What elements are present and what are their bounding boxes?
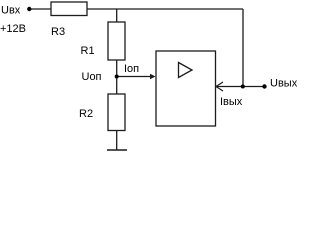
svg-text:R2: R2 — [79, 108, 93, 120]
svg-text:R3: R3 — [51, 26, 65, 38]
svg-text:Uвых: Uвых — [270, 78, 298, 90]
svg-text:Uвх: Uвх — [1, 4, 21, 16]
svg-text:Uоп: Uоп — [82, 71, 102, 83]
svg-text:Iоп: Iоп — [124, 63, 139, 75]
svg-text:R1: R1 — [81, 45, 95, 57]
svg-text:+12В: +12В — [0, 23, 26, 35]
svg-text:Iвых: Iвых — [220, 96, 243, 108]
